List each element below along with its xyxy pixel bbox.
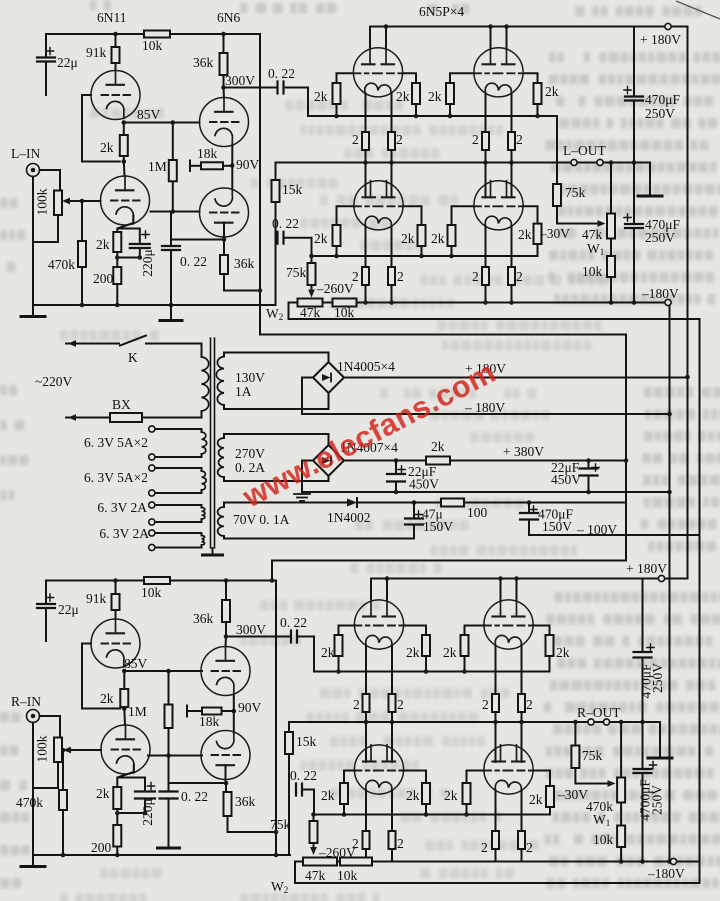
svg-text:2k: 2k	[100, 140, 114, 155]
wire 130V winding bottom edge	[224, 393, 329, 410]
triode V1b 6N11 (R)	[101, 725, 150, 774]
svg-text:BX: BX	[112, 397, 131, 412]
wire 0.22 bottom to ground bar (R)	[168, 799, 170, 848]
wire 36k2 leads (R)	[226, 783, 228, 832]
wire T1 grid right (R)	[404, 626, 426, 636]
node upper grid bus (L)	[334, 114, 540, 119]
wire T3 grid left (L)	[337, 206, 354, 225]
svg-text:0. 22: 0. 22	[280, 615, 307, 630]
wire -180V bus (R)	[372, 861, 700, 863]
wire 75k out top (R)	[574, 722, 576, 746]
wire 470k leads (L)	[81, 201, 83, 305]
wire V1a grid feedback (L)	[82, 95, 120, 162]
wire T4 plate columns (L)	[486, 163, 512, 198]
wire 18k right lead (L)	[223, 165, 232, 167]
wire cathode cols to bus (L)	[366, 150, 512, 163]
wire 15k leads (L)	[275, 163, 277, 238]
wire 36k2 to feed vertical (L)	[224, 290, 260, 292]
ground R-OUT	[648, 757, 672, 760]
svg-text:450V: 450V	[409, 477, 439, 492]
resistor 2 cathode T1L (L)	[362, 132, 369, 150]
svg-text:300V: 300V	[236, 622, 266, 637]
wire heater winding 4 bottom lead	[155, 545, 202, 548]
svg-text:6. 3V 2A: 6. 3V 2A	[99, 526, 149, 541]
wire heater winding 3 top lead	[155, 505, 202, 508]
svg-text:–180V: –180V	[641, 286, 679, 301]
svg-text:– 180V: – 180V	[464, 400, 505, 415]
resistor 1M (R)	[165, 705, 173, 729]
wire bias bus vertical right	[699, 319, 701, 883]
wire 270V winding leads	[223, 434, 225, 481]
wire T2 grid left (R)	[465, 626, 484, 636]
node 75k2 top (L)	[309, 254, 314, 259]
wire primary bottom to BX	[142, 411, 202, 418]
terminal R-OUT left	[588, 719, 594, 725]
wire T4 cathode columns (L)	[486, 226, 512, 267]
svg-text:2: 2	[397, 269, 404, 284]
svg-text:85V: 85V	[137, 107, 161, 122]
terminal heater 2 b	[149, 490, 155, 496]
resistor 2 cathode T1R (R)	[389, 694, 396, 712]
wire between 47k 10k (R)	[337, 861, 340, 863]
triode V1a 6N11 (R)	[91, 619, 140, 668]
earth symbol PSU	[294, 494, 310, 501]
svg-text:22μ: 22μ	[57, 55, 78, 70]
terminal +180V (L)	[665, 23, 671, 29]
wire 0.22 to lower grid bus (R)	[302, 790, 314, 815]
wire 22u top lead (R)	[45, 581, 47, 604]
capacitor 4700uF 250V (R)	[634, 769, 652, 773]
wire BX to mains	[66, 417, 110, 419]
node right verticals	[667, 412, 672, 864]
wire upper grid bus (R)	[314, 656, 550, 672]
diode 1N4002	[347, 499, 357, 507]
wire 22uF-2 top lead	[588, 461, 590, 469]
fuse BX	[110, 413, 142, 422]
power tube 6N5P T4 (L)	[474, 181, 523, 230]
wire V2a plate lead (R)	[225, 637, 228, 647]
svg-text:2k: 2k	[321, 645, 335, 660]
ground transformer shield	[203, 554, 223, 557]
node feed vertical join (R)	[274, 830, 279, 835]
wire V2a plate lead (L)	[223, 88, 226, 98]
svg-text:2: 2	[482, 697, 489, 712]
wire 470uF psu leads	[528, 503, 530, 536]
switch K	[120, 336, 146, 346]
resistor 2 cathode T4L (L)	[482, 267, 489, 285]
power tube 6N5P T2 (L)	[474, 48, 523, 97]
svg-text:75k: 75k	[270, 817, 291, 832]
wire T2 anode leads (L)	[491, 27, 507, 49]
connector L-IN jack	[27, 164, 40, 177]
svg-text:2: 2	[516, 269, 523, 284]
wire 10k to -180 (R)	[620, 847, 622, 862]
svg-text:2k: 2k	[314, 231, 328, 246]
svg-text:1N4005×4: 1N4005×4	[337, 359, 395, 374]
resistor 2k grid T2R (L)	[534, 83, 542, 104]
wire 36k leads (R)	[225, 581, 227, 637]
wire L-IN ground lead	[32, 177, 34, 306]
svg-text:90V: 90V	[236, 157, 260, 172]
capacitor 220u (R)	[135, 792, 155, 799]
resistor 18k (R)	[202, 708, 222, 715]
wire 1M leads (R)	[168, 671, 170, 756]
node 47u top	[412, 500, 417, 505]
resistor 10k (R out)	[617, 826, 625, 848]
wire -180V vertical right	[669, 306, 671, 862]
wire cathode RC link (L)	[117, 248, 140, 267]
svg-text:47k: 47k	[582, 227, 603, 242]
wire T4 grid right (R)	[533, 771, 550, 787]
wire lower grid bus (R)	[314, 807, 550, 815]
resistor 2 cathode T4R (L)	[508, 267, 515, 285]
svg-text:–260V: –260V	[318, 845, 356, 860]
wire 100k bottom (R)	[33, 762, 58, 788]
wire plate node link (L)	[171, 239, 224, 241]
node upper grid bus (R)	[336, 669, 467, 674]
svg-text:75k: 75k	[565, 185, 586, 200]
wire V1a grid feedback (R)	[82, 644, 120, 709]
winding 70V 0.1A	[218, 507, 224, 536]
wire lower cathodes to -180 bus (R)	[366, 849, 522, 862]
wire switch to primary	[146, 344, 202, 358]
wire V2a cathode to 90V (L)	[231, 146, 233, 166]
svg-text:R–OUT: R–OUT	[577, 705, 621, 720]
resistor 10k (L out)	[607, 256, 615, 277]
wire bridge2 to 0V	[302, 461, 313, 493]
wire heater winding 2 top lead	[155, 468, 202, 471]
resistor 10k (R bias)	[340, 858, 372, 866]
wire cap column mid (R)	[642, 658, 644, 769]
svg-text:220μ: 220μ	[140, 249, 155, 277]
wire 70V winding leads	[223, 504, 225, 539]
wire T1 grid left (R)	[339, 626, 355, 636]
wire +180V from bridge	[344, 377, 688, 379]
wire 36k leads (L)	[223, 34, 225, 88]
wire W1 to 10k (R)	[620, 803, 622, 826]
wire 75k2 arrow lead (R)	[313, 843, 315, 852]
triode V2b 6N6 inverted (R)	[201, 731, 250, 780]
terminal R-OUT right	[603, 719, 609, 725]
svg-text:150V: 150V	[423, 519, 453, 534]
wire 75k2 top (R)	[313, 815, 315, 822]
resistor 2 cathode T2L (L)	[482, 132, 489, 150]
node R output bus joins	[364, 720, 645, 725]
wire lower grid bus (L)	[312, 244, 538, 256]
wire T2 anode leads (R)	[501, 579, 517, 601]
wire R +180V rail	[371, 578, 688, 580]
node R ground bus junctions	[61, 853, 279, 858]
svg-text:–260V: –260V	[316, 281, 354, 296]
wire 36k2 leads (L)	[223, 240, 225, 291]
resistor 2k grid T4R (R)	[546, 786, 554, 807]
svg-text:R–IN: R–IN	[11, 694, 41, 709]
wire 1M leads (L)	[172, 123, 174, 212]
wire V1b plate lead (R)	[123, 709, 126, 726]
heater winding 1	[202, 432, 207, 454]
resistor 2 cathode T3L (L)	[362, 267, 369, 285]
wire W2 left loop (L)	[289, 303, 700, 320]
resistor 36k (L V2b)	[220, 255, 228, 274]
resistor 15k (R)	[285, 732, 293, 754]
resistor 2k grid T3R (R)	[422, 783, 430, 804]
svg-text:2k: 2k	[529, 792, 543, 807]
capacitor 22u (L)	[37, 58, 55, 62]
resistor 2k grid T2L (R)	[461, 635, 469, 656]
svg-text:2k: 2k	[428, 89, 442, 104]
wire V1b plate lead (L)	[123, 162, 126, 177]
plus 22u (L)	[46, 47, 53, 54]
node RC link (L)	[115, 255, 142, 260]
wire 15k node to ground bus (R)	[288, 790, 290, 856]
wire 85V line (R)	[124, 670, 202, 672]
resistor 2k grid T1R (R)	[422, 635, 430, 656]
wire heater winding 1 top lead	[155, 429, 202, 432]
wire heater winding 3 bottom lead	[155, 519, 202, 522]
terminal -180V (R)	[670, 858, 676, 864]
wire 200 to ground bus (R)	[116, 847, 118, 856]
wire R channel B+ feed	[271, 561, 273, 581]
svg-text:–30V: –30V	[557, 787, 588, 802]
wire L-IN to 100k	[40, 170, 61, 191]
wire W1 top (R)	[620, 722, 622, 778]
svg-text:270V: 270V	[235, 446, 265, 461]
triode V2a 6N6 (L)	[200, 98, 249, 147]
wire node to V2b grid (R)	[169, 755, 203, 757]
wire R output bus	[289, 722, 660, 757]
wire heater winding 4 top lead	[155, 533, 202, 536]
wire T2 grid left (L)	[450, 73, 474, 83]
svg-text:100k: 100k	[35, 188, 50, 215]
node RC link (R)	[115, 811, 147, 816]
svg-text:–180V: –180V	[647, 866, 685, 881]
wire 22u bottom stub (R)	[45, 608, 47, 641]
wire -100V line	[529, 534, 700, 536]
svg-text:250V: 250V	[645, 230, 675, 245]
transformer core	[211, 338, 215, 548]
wire 75k to W1 wiper (L)	[557, 206, 598, 224]
terminal heater 2 a	[149, 465, 155, 471]
wire 91k leads (R)	[115, 581, 117, 620]
svg-text:15k: 15k	[296, 734, 317, 749]
svg-text:22μ: 22μ	[58, 602, 79, 617]
wire T3 grid right (L)	[403, 206, 421, 225]
svg-text:6N6: 6N6	[217, 10, 240, 25]
wire cap column bottom (L)	[633, 228, 635, 303]
svg-text:200: 200	[91, 840, 112, 855]
capacitor 47u 150V	[405, 519, 423, 525]
wire R ground bus	[33, 854, 290, 856]
resistor 36k (L plate)	[220, 53, 228, 75]
triode V2b 6N6 inverted (L)	[200, 188, 249, 237]
resistor 2k (L V1a cathode)	[120, 135, 128, 156]
svg-text:2k: 2k	[100, 691, 114, 706]
wire T4 grid left (L)	[452, 206, 474, 225]
svg-text:91k: 91k	[86, 45, 107, 60]
wire cathode cols to bus (R)	[366, 712, 522, 722]
wire T1 anode leads (R)	[371, 579, 387, 601]
svg-text:470k: 470k	[48, 257, 75, 272]
wire T2 grid right (L)	[523, 73, 537, 83]
resistor 2k grid T1L (L)	[333, 83, 341, 104]
resistor 2 cathode T2R (L)	[508, 132, 515, 150]
svg-text:470k: 470k	[16, 795, 43, 810]
resistor 10k (L rail)	[144, 31, 170, 38]
wire 75k2 arrow lead (L)	[311, 285, 313, 294]
bridge rectifier 1N4005x4	[313, 362, 344, 393]
svg-text:220μ: 220μ	[140, 798, 155, 826]
svg-text:36k: 36k	[193, 55, 214, 70]
wire L front B+ rail	[46, 33, 260, 35]
potentiometer 100k (R input)	[54, 738, 62, 763]
wire 36k2 to feed vertical (R)	[228, 831, 277, 833]
capacitor 0.22 (R coupling upper)	[291, 631, 297, 643]
wire V2b plate lead (L)	[223, 223, 225, 240]
wire 15k leads (R)	[288, 722, 290, 790]
node 90V (L)	[230, 163, 235, 168]
plus 470uF lower (L)	[624, 214, 631, 221]
wire 0.22 top lead (L)	[170, 212, 172, 246]
svg-text:36k: 36k	[234, 256, 255, 271]
node L ground bus junctions	[80, 303, 174, 308]
wire 0.22 top lead (R)	[168, 756, 170, 792]
svg-text:1A: 1A	[235, 384, 252, 399]
node V2b plate (L)	[222, 237, 227, 242]
resistor 36k (R plate)	[222, 600, 230, 622]
capacitor 22uF 450V first	[387, 474, 405, 482]
wire lower grid resistor bottoms (R)	[344, 804, 467, 815]
resistor 75k (L bias)	[308, 263, 316, 285]
svg-text:2k: 2k	[401, 231, 415, 246]
wire lower grid resistor bottoms (L)	[337, 246, 452, 256]
wire T3 plate columns (L)	[366, 163, 392, 198]
resistor 2 cathode T1L (R)	[363, 694, 370, 712]
wire 200 to ground bus (L)	[116, 284, 118, 305]
svg-text:2: 2	[397, 836, 404, 851]
triode V1b 6N11 (L)	[101, 176, 150, 225]
svg-text:L–IN: L–IN	[11, 146, 40, 161]
resistor 91k (R)	[112, 594, 120, 610]
plus 22uF second	[592, 464, 599, 471]
terminal heater 4 b	[149, 544, 155, 550]
svg-text:250V: 250V	[650, 785, 665, 815]
node V1a cathode 85V (L)	[122, 120, 127, 125]
wire between 47k 10k (L)	[323, 302, 333, 304]
power tube 6N5P T3 (R)	[354, 745, 403, 794]
svg-text:2: 2	[353, 697, 360, 712]
svg-text:6. 3V 2A: 6. 3V 2A	[97, 500, 147, 515]
svg-text:2k: 2k	[431, 439, 445, 454]
svg-text:70V 0. 1A: 70V 0. 1A	[233, 512, 290, 527]
node 90V (R)	[232, 709, 237, 714]
wire R front feed vertical	[275, 581, 277, 856]
resistor 2k (PSU)	[426, 457, 450, 465]
wire V2b plate lead (R)	[225, 765, 227, 783]
wire 0.22 to lower grid bus (L)	[284, 238, 312, 256]
wiper arrow 100k (L)	[62, 198, 70, 205]
svg-text:10k: 10k	[337, 868, 358, 883]
heater winding 3	[202, 508, 205, 520]
resistor 2k grid T3L (R)	[340, 783, 348, 804]
wire -180V bus (L)	[357, 302, 665, 304]
ground bar 0.22 (L)	[160, 319, 182, 322]
svg-text:91k: 91k	[86, 591, 107, 606]
capacitor 0.22 (R coupling lower)	[296, 784, 302, 796]
resistor 2 cathode T3R (R)	[389, 831, 396, 849]
svg-text:2: 2	[352, 132, 359, 147]
svg-text:85V: 85V	[124, 656, 148, 671]
terminal heater 1 b	[149, 454, 155, 460]
wire cap column top (R)	[642, 579, 644, 652]
svg-text:K: K	[128, 350, 138, 365]
wire V1b cathode to 1M node (R)	[148, 755, 169, 757]
potentiometer W1 47k (L)	[607, 214, 615, 239]
resistor 2 cathode T4L (R)	[492, 831, 499, 849]
wire 85V line (L)	[124, 122, 200, 124]
svg-text:2: 2	[481, 840, 488, 855]
capacitor 0.22 (L coupling upper)	[278, 82, 284, 94]
power tube 6N5P T1 (L)	[353, 48, 402, 97]
svg-text:47k: 47k	[305, 868, 326, 883]
svg-text:2: 2	[397, 697, 404, 712]
resistor 2 cathode T2R (R)	[518, 694, 525, 712]
capacitor 22u (R)	[37, 604, 55, 608]
wire 2k leads (R V1a cathode)	[123, 671, 125, 709]
wire 22uF-1 top lead	[395, 461, 397, 474]
triode V1a 6N11 (L)	[91, 71, 140, 120]
svg-text:200: 200	[93, 271, 114, 286]
wire L ground bus	[33, 304, 276, 306]
svg-text:L–OUT: L–OUT	[563, 143, 606, 158]
svg-text:6N5P×4: 6N5P×4	[419, 4, 464, 19]
wire 18k right lead (R)	[222, 710, 234, 712]
wire 300V to 0.22 (R)	[226, 636, 290, 638]
plus 470uF psu	[530, 506, 537, 513]
node 1M bottom (R)	[166, 753, 171, 758]
wire T1 grid right (L)	[403, 73, 416, 83]
resistor 75k (R bias)	[310, 821, 318, 843]
svg-text:6. 3V 5A×2: 6. 3V 5A×2	[84, 435, 148, 450]
potentiometer W2 47k (L)	[298, 299, 323, 307]
ground L-OUT	[638, 195, 662, 198]
resistor 470k (R)	[59, 790, 67, 810]
resistor 36k (R V2b)	[224, 792, 232, 816]
terminal heater 3 b	[149, 519, 155, 525]
svg-text:0. 22: 0. 22	[268, 66, 295, 81]
terminal heater 3 a	[149, 502, 155, 508]
wire 100k bottom (L)	[33, 215, 58, 242]
wire T3 grid right (R)	[403, 771, 426, 784]
wire diode to 47u	[357, 502, 414, 504]
wire R-IN to 100k	[40, 716, 61, 738]
resistor 10k (R rail)	[144, 577, 170, 584]
terminal +180V (R)	[658, 575, 664, 581]
wire heater winding 2 bottom lead	[155, 490, 202, 493]
wire L +180V rail	[370, 27, 688, 578]
svg-text:2k: 2k	[431, 231, 445, 246]
wire W2 left loop (R)	[295, 862, 700, 884]
resistor 2 cathode T3R (L)	[388, 267, 395, 285]
wire 90V to V2b (R)	[233, 711, 235, 733]
resistor 2 cathode T4R (R)	[518, 831, 525, 849]
node lower grid bus (L)	[334, 254, 454, 259]
wire 70V winding bottom edge	[224, 538, 414, 540]
svg-text:2k: 2k	[556, 645, 570, 660]
wire +380V line	[344, 460, 626, 462]
svg-text:6. 3V 5A×2: 6. 3V 5A×2	[84, 470, 148, 485]
plus 4700uF (R)	[649, 761, 656, 768]
svg-text:2k: 2k	[321, 788, 335, 803]
